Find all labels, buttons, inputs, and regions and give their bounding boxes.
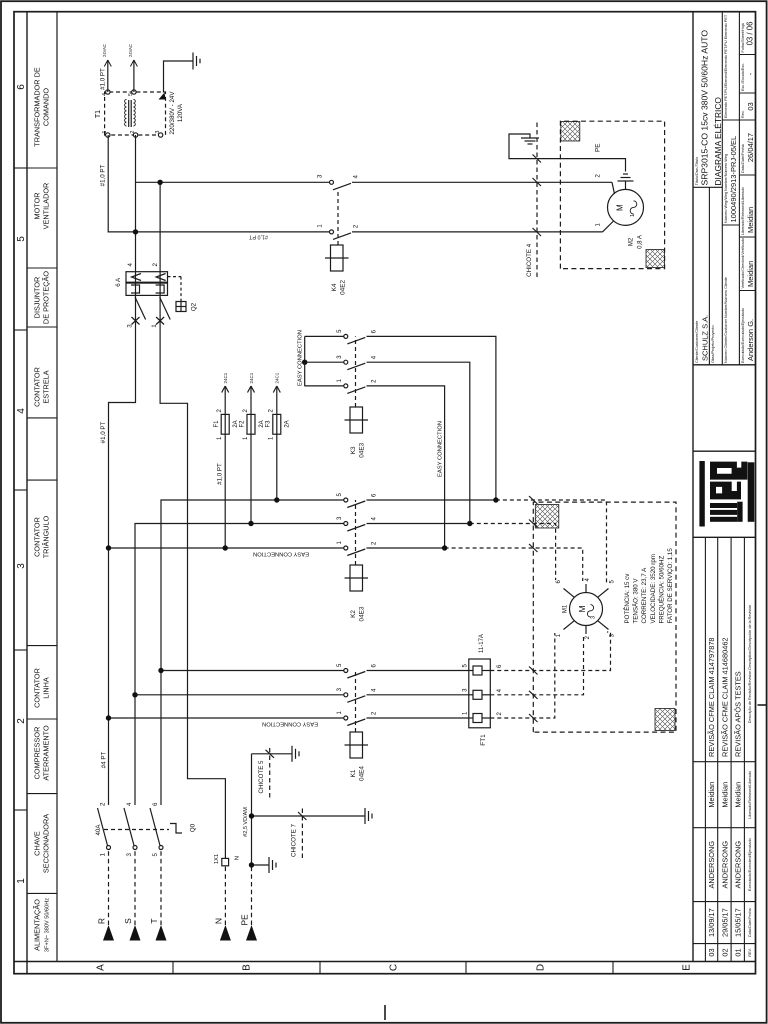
svg-text:SCHULZ S.A.: SCHULZ S.A. xyxy=(701,315,710,361)
svg-text:REVISÃO CFME CLAIM 414797878: REVISÃO CFME CLAIM 414797878 xyxy=(707,637,716,757)
svg-text:3F+N~ 380V 50/60Hz: 3F+N~ 380V 50/60Hz xyxy=(45,898,51,952)
svg-text:2: 2 xyxy=(497,712,503,716)
svg-text:Meidian: Meidian xyxy=(707,782,716,808)
svg-text:COMANDO: COMANDO xyxy=(42,88,51,126)
svg-text:Data/Date/Fecha: Data/Date/Fecha xyxy=(748,907,752,937)
svg-text:ANDERSONG: ANDERSONG xyxy=(734,841,743,889)
svg-text:DISJUNTOR: DISJUNTOR xyxy=(33,277,42,319)
svg-text:24C1: 24C1 xyxy=(249,372,254,383)
svg-text:6: 6 xyxy=(372,493,378,497)
svg-text:N: N xyxy=(213,918,223,924)
svg-text:04E4: 04E4 xyxy=(359,766,366,781)
svg-text:Liberado/Released/Liberado: Liberado/Released/Liberado xyxy=(741,187,745,235)
svg-text:5: 5 xyxy=(128,93,134,96)
svg-text:03 / 06: 03 / 06 xyxy=(746,22,755,46)
svg-text:VENTILADOR: VENTILADOR xyxy=(42,183,51,230)
svg-text:1: 1 xyxy=(337,378,343,382)
svg-text:Verificado/Checked/Verificado: Verificado/Checked/Verificado xyxy=(741,238,745,288)
svg-text:3: 3 xyxy=(126,852,133,856)
svg-text:3: 3 xyxy=(610,633,616,637)
svg-text:T1: T1 xyxy=(95,110,102,118)
svg-text:2: 2 xyxy=(354,224,360,228)
svg-text:CHICOTE 7: CHICOTE 7 xyxy=(291,823,298,857)
svg-text:1: 1 xyxy=(16,878,27,884)
svg-text:1: 1 xyxy=(596,223,602,227)
svg-text:Executado/Executed/Ejecutado: Executado/Executed/Ejecutado xyxy=(748,838,752,891)
svg-text:M1: M1 xyxy=(563,604,569,613)
svg-text:24VAC: 24VAC xyxy=(128,44,133,57)
svg-text:4: 4 xyxy=(372,517,378,521)
svg-text:3: 3 xyxy=(591,616,597,619)
svg-text:4: 4 xyxy=(372,355,378,359)
svg-text:B: B xyxy=(242,964,253,971)
svg-text:F2: F2 xyxy=(240,420,246,428)
svg-text:2A: 2A xyxy=(285,420,291,427)
svg-text:EASY CONNECTION: EASY CONNECTION xyxy=(253,551,309,557)
svg-text:SRP3015-CO 15cv 380V 50/60Hz A: SRP3015-CO 15cv 380V 50/60Hz AUTO xyxy=(700,30,710,186)
svg-text:2: 2 xyxy=(16,718,27,724)
svg-text:1: 1 xyxy=(102,131,108,134)
svg-text:EASY CONNECTION: EASY CONNECTION xyxy=(298,330,304,386)
svg-text:PE: PE xyxy=(240,914,250,926)
svg-text:2: 2 xyxy=(269,409,275,413)
svg-text:3: 3 xyxy=(127,324,134,328)
svg-text:4: 4 xyxy=(16,408,27,414)
svg-text:2A: 2A xyxy=(233,420,239,427)
svg-text:4: 4 xyxy=(354,175,360,179)
svg-text:29/05/17: 29/05/17 xyxy=(720,908,729,937)
svg-text:MOTOR: MOTOR xyxy=(33,192,42,219)
svg-text:F1: F1 xyxy=(214,420,220,428)
svg-text:1: 1 xyxy=(556,633,562,637)
svg-text:1X1: 1X1 xyxy=(214,854,220,864)
svg-text:ATERRAMENTO: ATERRAMENTO xyxy=(42,725,51,781)
svg-text:6: 6 xyxy=(152,802,159,806)
svg-text:5: 5 xyxy=(337,663,343,667)
svg-text:CONTATOR: CONTATOR xyxy=(33,517,42,557)
svg-text:Q0: Q0 xyxy=(190,823,197,832)
svg-text:2: 2 xyxy=(100,802,107,806)
svg-text:4: 4 xyxy=(126,802,133,806)
svg-text:03: 03 xyxy=(707,948,716,956)
svg-text:1: 1 xyxy=(337,711,343,715)
svg-text:FREQUÊNCIA: 50/60HZ: FREQUÊNCIA: 50/60HZ xyxy=(657,556,665,624)
svg-text:Meidian: Meidian xyxy=(746,261,755,287)
svg-text:15/05/17: 15/05/17 xyxy=(734,908,743,937)
svg-text:1: 1 xyxy=(462,711,468,715)
svg-text:REV.: REV. xyxy=(748,948,752,957)
svg-text:220/380V - 24V: 220/380V - 24V xyxy=(169,91,176,135)
svg-text:3: 3 xyxy=(337,355,343,359)
svg-text:5: 5 xyxy=(16,236,27,242)
svg-text:CONTATOR: CONTATOR xyxy=(33,668,42,708)
svg-text:1: 1 xyxy=(630,214,636,217)
svg-text:CHICOTE 5: CHICOTE 5 xyxy=(258,760,265,794)
svg-text:TENSÃO: 380 V: TENSÃO: 380 V xyxy=(633,578,640,624)
svg-text:Título/Drw./Título: Título/Drw./Título xyxy=(695,157,699,186)
svg-text:Número Cliente/Customer Number: Número Cliente/Customer Number/Número Cl… xyxy=(724,277,728,363)
svg-text:4: 4 xyxy=(127,263,134,267)
svg-text:04E3: 04E3 xyxy=(359,606,366,621)
svg-text:S: S xyxy=(123,918,133,924)
svg-text:E: E xyxy=(682,964,693,971)
svg-text:-: - xyxy=(746,72,755,75)
svg-text:Rev.: Rev. xyxy=(741,110,745,118)
svg-text:1000490/2913-PRJ-05/EL: 1000490/2913-PRJ-05/EL xyxy=(729,136,738,223)
svg-text:03: 03 xyxy=(746,102,755,110)
svg-text:5: 5 xyxy=(152,852,159,856)
svg-text:Liberado/Released/Liberado: Liberado/Released/Liberado xyxy=(748,771,752,819)
svg-text:C: C xyxy=(389,964,400,971)
svg-text:#2,5 VD/AM: #2,5 VD/AM xyxy=(243,807,249,837)
svg-text:2: 2 xyxy=(372,541,378,545)
svg-text:6 A: 6 A xyxy=(115,277,122,287)
svg-text:Meidian: Meidian xyxy=(734,782,743,808)
svg-text:3: 3 xyxy=(16,563,27,569)
svg-text:Elemento PET/PU/Element/Elemen: Elemento PET/PU/Element/Elemento PET/PU … xyxy=(724,14,728,118)
svg-text:#4 PT: #4 PT xyxy=(101,752,108,769)
svg-text:FATOR DE SERVIÇO: 1,15: FATOR DE SERVIÇO: 1,15 xyxy=(667,548,674,624)
svg-text:5: 5 xyxy=(610,580,616,584)
svg-text:SECCIONADORA: SECCIONADORA xyxy=(42,814,51,873)
svg-text:R: R xyxy=(97,918,107,924)
svg-text:M: M xyxy=(577,605,587,612)
svg-text:CHAVE: CHAVE xyxy=(33,831,42,856)
svg-text:1: 1 xyxy=(217,436,223,440)
svg-text:1: 1 xyxy=(100,852,107,856)
svg-text:VELOCIDADE: 3520 rpm: VELOCIDADE: 3520 rpm xyxy=(650,554,657,623)
svg-text:PE: PE xyxy=(595,143,602,152)
svg-text:2: 2 xyxy=(152,263,159,267)
svg-text:2: 2 xyxy=(372,711,378,715)
svg-text:CORRENTE: 23,7 A: CORRENTE: 23,7 A xyxy=(641,567,648,624)
svg-text:6: 6 xyxy=(16,84,27,90)
svg-text:3: 3 xyxy=(155,131,161,134)
svg-text:4: 4 xyxy=(497,688,503,692)
svg-text:3: 3 xyxy=(337,687,343,691)
svg-text:Meidian: Meidian xyxy=(746,207,755,233)
svg-text:1: 1 xyxy=(243,436,249,440)
svg-text:01: 01 xyxy=(734,948,743,956)
svg-text:D: D xyxy=(536,964,547,971)
svg-text:POTÊNCIA: 15 cv: POTÊNCIA: 15 cv xyxy=(623,573,631,624)
svg-text:#1,0 PT: #1,0 PT xyxy=(100,68,107,90)
svg-text:Obra/Projeto/Proyecto: Obra/Projeto/Proyecto xyxy=(711,325,715,363)
svg-text:1: 1 xyxy=(318,224,324,228)
svg-text:4: 4 xyxy=(372,688,378,692)
svg-text:24C1: 24C1 xyxy=(275,372,280,383)
svg-text:2: 2 xyxy=(372,379,378,383)
svg-text:04E3: 04E3 xyxy=(359,442,366,457)
svg-text:6: 6 xyxy=(372,664,378,668)
svg-text:M: M xyxy=(616,204,625,211)
svg-text:#1,0 PT: #1,0 PT xyxy=(100,164,107,186)
svg-text:4: 4 xyxy=(102,93,108,96)
svg-text:24VAC: 24VAC xyxy=(102,44,107,57)
svg-text:04E2: 04E2 xyxy=(340,279,347,294)
svg-text:120VA: 120VA xyxy=(177,103,184,122)
svg-text:3: 3 xyxy=(337,516,343,520)
svg-text:0,8 A: 0,8 A xyxy=(638,235,644,249)
svg-text:FT1: FT1 xyxy=(480,734,487,746)
svg-text:COMPRESSOR: COMPRESSOR xyxy=(33,727,42,780)
svg-text:CONTATOR: CONTATOR xyxy=(33,367,42,407)
svg-text:2: 2 xyxy=(217,409,223,413)
svg-text:Q2: Q2 xyxy=(191,302,198,311)
svg-text:ALIMENTAÇÃO: ALIMENTAÇÃO xyxy=(33,899,42,951)
svg-text:11-17A: 11-17A xyxy=(479,634,485,653)
svg-text:Número Weg/Weg Number/Número W: Número Weg/Weg Number/Número Weg xyxy=(724,154,728,223)
svg-text:1: 1 xyxy=(151,324,158,328)
svg-text:6: 6 xyxy=(497,664,503,668)
svg-text:#1,0 PT: #1,0 PT xyxy=(100,421,107,443)
svg-text:2: 2 xyxy=(596,174,602,178)
svg-text:M2: M2 xyxy=(629,237,635,246)
svg-text:EASY CONNECTION: EASY CONNECTION xyxy=(262,721,318,727)
svg-text:K1: K1 xyxy=(350,769,357,777)
svg-text:Data/Date/Fecha: Data/Date/Fecha xyxy=(741,143,745,173)
svg-text:Meidian: Meidian xyxy=(720,782,729,808)
svg-text:ANDERSONG: ANDERSONG xyxy=(720,841,729,889)
svg-text:2: 2 xyxy=(130,131,136,134)
svg-text:REVISÃO CFME CLAIM 414680462: REVISÃO CFME CLAIM 414680462 xyxy=(720,637,729,757)
svg-text:2: 2 xyxy=(585,635,591,639)
svg-text:F3: F3 xyxy=(265,420,271,428)
svg-text:#1,0 PT: #1,0 PT xyxy=(248,234,268,240)
svg-text:2A: 2A xyxy=(259,420,265,427)
svg-text:ESTRELA: ESTRELA xyxy=(42,370,51,403)
svg-text:40A: 40A xyxy=(95,824,102,836)
svg-text:1: 1 xyxy=(337,541,343,545)
svg-text:K3: K3 xyxy=(350,446,357,454)
svg-text:LINHA: LINHA xyxy=(42,677,51,699)
svg-text:Descrição de Revisão/Revision: Descrição de Revisão/Revision Descriptio… xyxy=(748,605,752,723)
svg-text:Esc./Escala/Esc.: Esc./Escala/Esc. xyxy=(741,63,745,91)
svg-text:Cliente/Customer/Cliente: Cliente/Customer/Cliente xyxy=(695,321,699,363)
svg-text:26/04/17: 26/04/17 xyxy=(746,133,755,162)
svg-text:3: 3 xyxy=(318,174,324,178)
svg-text:02: 02 xyxy=(720,948,729,956)
svg-text:TRANSFORMADOR DE: TRANSFORMADOR DE xyxy=(33,67,42,147)
svg-text:K2: K2 xyxy=(350,610,357,618)
svg-text:#1,0 PT: #1,0 PT xyxy=(217,463,224,485)
svg-text:CHICOTE 4: CHICOTE 4 xyxy=(526,243,533,277)
svg-text:Executado/Executado/Ejecutado: Executado/Executado/Ejecutado xyxy=(741,308,745,363)
svg-text:2: 2 xyxy=(243,409,249,413)
svg-text:DIAGRAMA ELÉTRICO: DIAGRAMA ELÉTRICO xyxy=(713,97,723,186)
svg-text:6: 6 xyxy=(372,329,378,333)
svg-text:1: 1 xyxy=(269,436,275,440)
svg-text:13/09/17: 13/09/17 xyxy=(707,908,716,937)
svg-text:Folha/Sheet/Hoja: Folha/Sheet/Hoja xyxy=(741,22,745,52)
svg-text:ANDERSONG: ANDERSONG xyxy=(707,841,716,889)
svg-text:3: 3 xyxy=(462,688,468,692)
svg-text:Anderson G.: Anderson G. xyxy=(746,319,755,361)
svg-text:EASY CONNECTION: EASY CONNECTION xyxy=(438,421,444,477)
svg-text:5: 5 xyxy=(462,664,468,668)
svg-text:6: 6 xyxy=(556,580,562,584)
svg-text:DE PROTEÇÃO: DE PROTEÇÃO xyxy=(42,271,51,324)
svg-text:4: 4 xyxy=(585,578,591,582)
svg-text:TRIÂNGULO: TRIÂNGULO xyxy=(42,515,51,558)
svg-text:N: N xyxy=(235,856,241,860)
svg-text:REVISÃO APÓS TESTES: REVISÃO APÓS TESTES xyxy=(734,671,743,757)
svg-text:T: T xyxy=(149,918,159,923)
svg-text:5: 5 xyxy=(337,329,343,333)
svg-text:K4: K4 xyxy=(331,283,338,291)
svg-text:A: A xyxy=(96,964,107,971)
svg-text:24C1: 24C1 xyxy=(223,372,228,383)
svg-text:5: 5 xyxy=(337,493,343,497)
